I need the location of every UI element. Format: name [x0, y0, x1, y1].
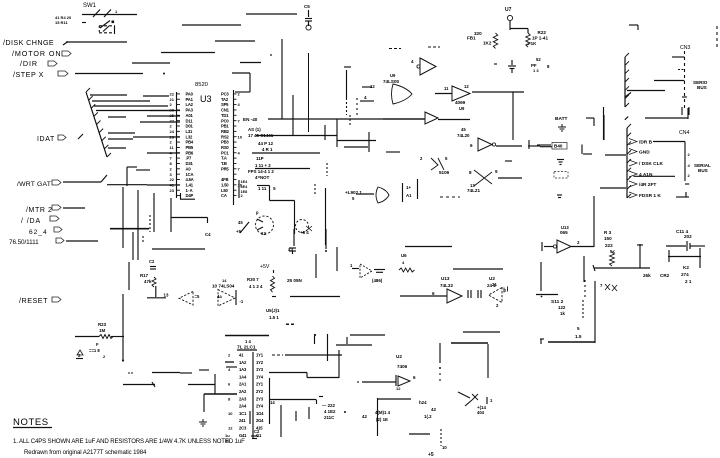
svg-text:1Y4: 1Y4 [256, 374, 264, 379]
wire [540, 262, 542, 291]
wire [132, 62, 170, 64]
wire [338, 350, 340, 378]
wire [255, 168, 310, 170]
svg-text:4 R 1: 4 R 1 [262, 147, 273, 152]
wire [75, 73, 143, 75]
wire [346, 337, 348, 344]
svg-text:+5: +5 [428, 452, 434, 458]
svg-text:1Y2: 1Y2 [256, 360, 264, 365]
connector CN4 pin / DSK CLK [629, 160, 637, 166]
svg-text:PB6: PB6 [186, 150, 194, 155]
wire [204, 393, 237, 395]
wire [336, 344, 372, 346]
wire [147, 184, 180, 186]
svg-text:FB1: FB1 [467, 36, 476, 41]
svg-text:4FB: 4FB [221, 177, 228, 182]
diode CR5 [458, 392, 470, 398]
wire [96, 110, 170, 112]
svg-text:C4: C4 [205, 232, 211, 237]
svg-text:274: 274 [681, 272, 689, 277]
svg-text:(486): (486) [372, 278, 383, 283]
svg-text:27: 27 [170, 118, 175, 123]
wire [594, 267, 650, 269]
svg-text:D4P: D4P [186, 193, 194, 198]
wire [240, 62, 261, 64]
corner bracket [593, 118, 595, 126]
svg-text:1A2: 1A2 [239, 360, 247, 365]
wire [136, 169, 150, 171]
wire [137, 190, 139, 260]
svg-text:1G4: 1G4 [256, 411, 264, 416]
svg-text:1E4: 1E4 [241, 180, 249, 184]
wire [378, 398, 412, 400]
wire [108, 147, 126, 149]
svg-text:202: 202 [684, 234, 692, 239]
svg-text:12: 12 [464, 84, 469, 89]
wire [582, 300, 584, 320]
svg-text:1A4: 1A4 [239, 374, 247, 379]
IC U3 right pin stubs [234, 93, 237, 95]
inverter U12A [179, 292, 193, 306]
svg-text:L32: L32 [186, 134, 193, 139]
svg-text:1 11 + 2: 1 11 + 2 [255, 163, 271, 168]
wire [537, 144, 551, 146]
wire [252, 152, 320, 154]
wire [143, 95, 169, 97]
svg-text:B40: B40 [554, 144, 563, 149]
svg-text:2: 2 [577, 240, 580, 245]
svg-text:PB5: PB5 [186, 145, 194, 150]
capacitor C8 [511, 60, 513, 65]
wire [108, 116, 126, 118]
svg-text:1P 1-41: 1P 1-41 [532, 36, 548, 41]
wire [338, 118, 424, 120]
svg-text:4.5A: 4.5A [186, 177, 194, 182]
svg-text:7406: 7406 [397, 364, 408, 369]
inverter U2B [395, 375, 397, 386]
wire [496, 145, 522, 147]
svg-text:74L20: 74L20 [457, 133, 470, 138]
svg-text:9: 9 [495, 169, 498, 174]
wire [716, 26, 718, 48]
svg-text:D11: D11 [186, 118, 194, 123]
wire [147, 152, 180, 154]
wire [110, 228, 149, 230]
wire [63, 181, 101, 183]
svg-text:+5: +5 [236, 229, 242, 234]
wire [63, 207, 85, 209]
svg-text:14: 14 [222, 278, 227, 283]
wire [540, 146, 552, 148]
wire [214, 374, 216, 394]
connector CN3 pins [684, 51, 686, 109]
svg-text:4: 4 [411, 59, 414, 64]
wire [472, 91, 524, 93]
wire [645, 117, 688, 119]
wire [286, 324, 296, 326]
capacitor C12 [557, 159, 564, 161]
svg-text:PA3: PA3 [186, 108, 194, 113]
svg-text:12: 12 [228, 426, 233, 431]
svg-text:10: 10 [442, 445, 447, 450]
switch SW1 contact box [99, 25, 115, 27]
wire [292, 95, 294, 135]
wire [314, 336, 316, 344]
svg-text:RS2: RS2 [221, 134, 229, 139]
svg-text:23: 23 [170, 188, 175, 193]
svg-text:2: 2 [241, 194, 243, 198]
svg-text:2G4: 2G4 [256, 418, 264, 423]
wire [92, 100, 150, 102]
svg-text:1.50: 1.50 [221, 182, 229, 187]
svg-text:1A3: 1A3 [239, 367, 247, 372]
svg-text:C2: C2 [254, 429, 260, 434]
wire [600, 187, 626, 189]
svg-text:2Y3: 2Y3 [256, 396, 264, 401]
wire [314, 184, 316, 196]
wire [325, 188, 327, 245]
svg-text:10 74LS04: 10 74LS04 [212, 284, 235, 289]
svg-text:2A2: 2A2 [239, 389, 247, 394]
junction dot [439, 367, 441, 369]
svg-text:62_4: 62_4 [29, 229, 48, 236]
wire [140, 121, 180, 123]
svg-text:F: F [96, 342, 99, 347]
svg-text:4 1E2: 4 1E2 [324, 409, 336, 414]
svg-text:x3: x3 [288, 247, 293, 252]
IC U6 body [252, 352, 254, 438]
wire [451, 342, 488, 344]
svg-text:4E4: 4E4 [241, 185, 249, 189]
svg-text:R17: R17 [140, 273, 149, 278]
gate U2A [489, 288, 503, 303]
svg-text:21: 21 [492, 282, 497, 287]
wire [494, 63, 497, 65]
svg-text:74LS00: 74LS00 [383, 79, 400, 84]
svg-text:2Y1: 2Y1 [256, 382, 264, 387]
wire [603, 115, 605, 140]
wire [344, 146, 368, 148]
svg-text:/STEP X: /STEP X [13, 70, 44, 79]
svg-text:41: 41 [170, 182, 175, 187]
wire [327, 334, 329, 361]
svg-text:/4R 2FT: /4R 2FT [639, 182, 656, 188]
svg-text:U7: U7 [505, 7, 512, 13]
wire [257, 185, 270, 187]
connector CN4 pin /DR B [629, 139, 637, 145]
svg-text:CA: CA [221, 193, 227, 198]
junction dot [325, 250, 327, 252]
wire [581, 145, 583, 155]
svg-text:4 1 2 4: 4 1 2 4 [249, 284, 263, 289]
wire [337, 140, 376, 142]
svg-text:/MOTOR ON: /MOTOR ON [12, 49, 62, 58]
wire [319, 396, 323, 398]
svg-text:21: 21 [170, 97, 175, 102]
crystal X1 box [402, 183, 404, 202]
svg-text:2C3: 2C3 [239, 426, 247, 431]
svg-text:52: 52 [536, 57, 541, 62]
svg-text:Redrawn from original A2177T s: Redrawn from original A2177T schematic 1… [24, 449, 147, 456]
svg-text:1M: 1M [99, 328, 105, 333]
svg-text:4069: 4069 [455, 100, 466, 105]
svg-text:222: 222 [605, 243, 613, 248]
svg-text:p: p [256, 210, 259, 215]
svg-text:122: 122 [558, 305, 566, 310]
wire [122, 187, 124, 248]
wire [438, 119, 470, 121]
connector CN4 pin FDSR 1 K [629, 192, 637, 198]
wire [584, 280, 586, 300]
svg-text:TA2: TA2 [221, 97, 229, 102]
svg-text:065: 065 [560, 230, 568, 235]
svg-text:45: 45 [238, 220, 243, 225]
ground [199, 419, 207, 426]
svg-text:1Y1: 1Y1 [256, 353, 264, 358]
connector CN4 pin GND [629, 149, 637, 155]
svg-text:2A4: 2A4 [239, 404, 247, 409]
svg-text:10: 10 [238, 134, 243, 139]
wire [203, 394, 205, 412]
svg-text:2Y4: 2Y4 [256, 404, 264, 409]
svg-text:1Y3: 1Y3 [256, 367, 264, 372]
wire [256, 135, 337, 137]
wire [90, 94, 127, 96]
svg-text:1CA: 1CA [186, 172, 194, 177]
svg-text:22: 22 [170, 177, 175, 182]
wire [199, 369, 209, 371]
net label B40 [552, 143, 567, 150]
svg-text:FPS 14-4 1 2: FPS 14-4 1 2 [248, 169, 274, 174]
gate U13A [447, 289, 462, 303]
capacitor C10 [374, 269, 385, 271]
wire [123, 384, 155, 386]
wire [634, 175, 676, 177]
svg-text:8520: 8520 [195, 82, 208, 88]
svg-text:D31: D31 [186, 161, 194, 166]
wire [639, 244, 641, 268]
svg-text:44 P 12: 44 P 12 [258, 141, 274, 146]
svg-text:GND: GND [639, 150, 650, 156]
wire [349, 115, 351, 126]
wire [383, 118, 425, 120]
svg-text:BUS: BUS [697, 85, 707, 90]
wire [161, 52, 215, 54]
svg-text:12: 12 [396, 386, 401, 391]
svg-text:74L21: 74L21 [467, 188, 480, 193]
wire [140, 105, 168, 107]
capacitor C11 [467, 290, 469, 298]
wire [405, 246, 452, 248]
wire [308, 53, 310, 132]
svg-text:4(M)1 4: 4(M)1 4 [375, 410, 391, 415]
svg-text:2A3: 2A3 [239, 396, 247, 401]
wire [326, 163, 328, 176]
wire [368, 132, 370, 152]
svg-text:45: 45 [461, 127, 466, 132]
svg-text:11P: 11P [256, 156, 264, 161]
wire [270, 399, 316, 401]
svg-text:LA2: LA2 [186, 102, 194, 107]
wire [356, 98, 358, 116]
svg-text:/ DSK CLK: / DSK CLK [639, 161, 664, 167]
svg-text:6: 6 [432, 291, 435, 296]
wire [386, 151, 400, 153]
wire [249, 411, 251, 424]
svg-text:T.B: T.B [221, 161, 227, 166]
wire [152, 372, 180, 374]
wire [603, 107, 605, 140]
svg-text:1 11 5: 1 11 5 [258, 186, 276, 191]
buffer U13B [541, 242, 543, 251]
wire [510, 28, 528, 30]
svg-text:8: 8 [469, 170, 472, 175]
wire [149, 215, 151, 232]
wire [512, 92, 514, 140]
wire [439, 343, 441, 363]
wire [295, 411, 297, 421]
wire [487, 344, 489, 378]
svg-text:11: 11 [444, 86, 449, 91]
svg-text:PC0: PC0 [221, 118, 229, 123]
wire [269, 372, 307, 374]
svg-text:BUS: BUS [698, 168, 708, 173]
svg-text:76.50/1111: 76.50/1111 [9, 239, 39, 246]
svg-text:5<: 5< [610, 249, 615, 254]
connector CN4 pin 4 A1N [629, 171, 637, 177]
svg-text:L31: L31 [186, 129, 193, 134]
svg-text:241: 241 [239, 418, 246, 423]
wire [336, 119, 338, 147]
svg-text:1(.2: 1(.2 [424, 414, 432, 419]
svg-text:h24: h24 [419, 400, 427, 405]
wire [127, 166, 137, 168]
connector J1 (hatched) [86, 92, 107, 157]
wire [453, 268, 503, 270]
wire [290, 296, 340, 298]
wire [152, 248, 205, 250]
wire [505, 160, 512, 162]
wire [593, 196, 595, 247]
svg-text:U3: U3 [200, 94, 212, 104]
svg-text:6: 6 [470, 143, 473, 148]
wire [308, 407, 310, 419]
wire [225, 335, 269, 337]
svg-text:CR2: CR2 [660, 273, 670, 278]
svg-text:==1 8: ==1 8 [89, 348, 100, 353]
svg-text:=5: =5 [195, 294, 200, 299]
svg-text:26k: 26k [643, 273, 651, 278]
wire [133, 136, 180, 138]
svg-text:TD1: TD1 [221, 113, 229, 118]
svg-text:CN4: CN4 [679, 130, 689, 136]
svg-text:L50: L50 [221, 188, 228, 193]
wire [235, 91, 250, 93]
wire [225, 361, 234, 363]
IC U3 left pin stubs [177, 93, 181, 95]
svg-text:1k: 1k [560, 311, 565, 316]
wire [108, 138, 133, 140]
svg-text:25: 25 [170, 113, 175, 118]
svg-text:10: 10 [228, 411, 233, 416]
wire [226, 366, 237, 368]
svg-text:1K2: 1K2 [483, 41, 492, 46]
svg-text:/RESET: /RESET [19, 296, 48, 305]
wire [281, 39, 283, 119]
svg-text:6: 6 [413, 375, 416, 380]
svg-text:U5(J)1: U5(J)1 [266, 308, 280, 313]
wire [463, 331, 500, 333]
junction dot [163, 73, 165, 75]
wire [170, 198, 172, 232]
wire [681, 107, 683, 115]
svg-text:EN -40: EN -40 [243, 117, 258, 122]
wire [324, 125, 326, 140]
svg-text:CN1: CN1 [221, 108, 230, 113]
svg-text:24: 24 [170, 129, 175, 134]
svg-text:U13: U13 [441, 276, 450, 281]
svg-text:150: 150 [604, 236, 612, 241]
wire [440, 196, 460, 198]
wire [153, 193, 155, 232]
wire [182, 24, 241, 26]
wire [400, 295, 447, 297]
svg-text:1. ALL C4PS SHOWN ARE 1uF AND: 1. ALL C4PS SHOWN ARE 1uF AND RESISTORS … [13, 438, 245, 445]
wire [498, 177, 522, 179]
svg-text:/MTR 2: /MTR 2 [26, 207, 53, 214]
wire [94, 105, 140, 107]
svg-text:25 05N: 25 05N [287, 278, 302, 283]
junction dot [314, 334, 316, 336]
wire [528, 140, 530, 149]
svg-text:RB2: RB2 [221, 129, 230, 134]
wire [272, 354, 283, 356]
svg-text:SW1: SW1 [83, 3, 97, 9]
wire [150, 110, 180, 112]
svg-text:RS0: RS0 [221, 145, 229, 150]
svg-text:D01: D01 [186, 124, 194, 129]
wire [188, 384, 215, 386]
wire [293, 229, 295, 246]
svg-text:PB1: PB1 [221, 124, 229, 129]
wire [594, 281, 596, 343]
IC U3 bottom pin bracket [238, 180, 240, 198]
wire [132, 232, 134, 260]
wire [246, 13, 297, 15]
wire [142, 236, 144, 244]
wire [605, 154, 626, 156]
svg-text:4=NOT: 4=NOT [255, 175, 270, 180]
svg-text:1.5: 1.5 [575, 334, 582, 339]
wire [344, 66, 351, 68]
wire [66, 240, 98, 242]
svg-text:C2: C2 [149, 259, 155, 264]
svg-text:PC3: PC3 [221, 92, 229, 97]
svg-text:A1: A1 [406, 193, 412, 198]
svg-text:PB3: PB3 [221, 140, 229, 145]
wire [676, 196, 689, 198]
svg-text:U9: U9 [459, 106, 465, 111]
svg-text:2Y2: 2Y2 [256, 389, 264, 394]
svg-text:IDAT: IDAT [37, 136, 55, 143]
resistor R29 [399, 268, 414, 272]
svg-text:AS (1): AS (1) [248, 127, 261, 132]
wire [583, 256, 585, 282]
svg-text:2A1: 2A1 [239, 382, 247, 387]
wire [122, 294, 124, 361]
svg-text:4 A1N: 4 A1N [639, 172, 653, 178]
wire [548, 341, 595, 343]
